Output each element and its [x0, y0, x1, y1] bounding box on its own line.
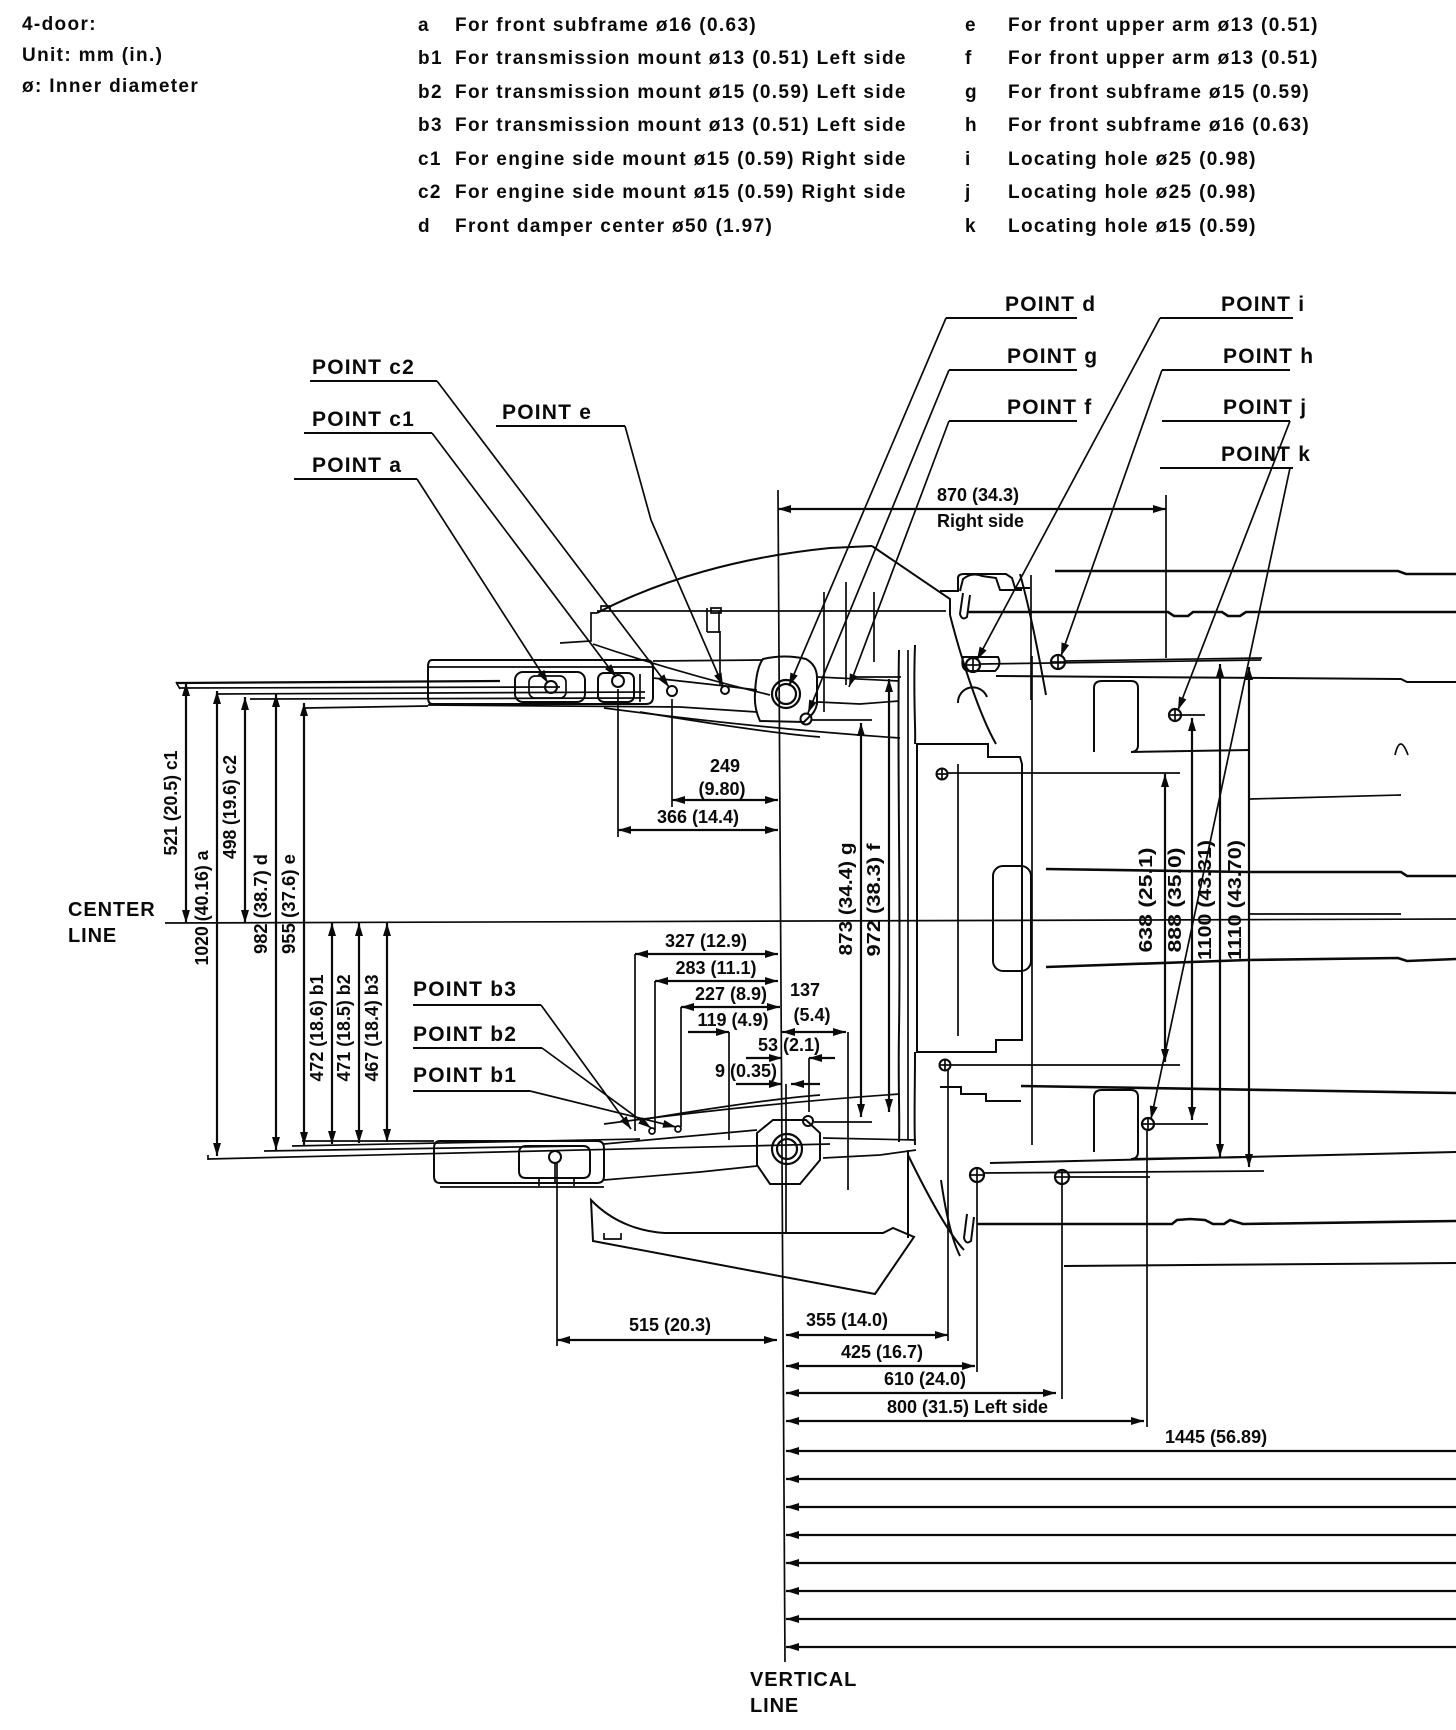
- svg-text:For engine side mount ø15 (0.5: For engine side mount ø15 (0.59) Right s…: [455, 182, 907, 203]
- svg-text:249: 249: [710, 756, 740, 776]
- label POINT d: [789, 293, 1096, 686]
- svg-text:227 (8.9): 227 (8.9): [695, 984, 767, 1004]
- label POINT h: [1061, 345, 1314, 656]
- floor tunnel outline: [917, 744, 1022, 1052]
- lower arm mount hole: [539, 1151, 574, 1186]
- svg-text:870 (34.3): 870 (34.3): [937, 485, 1019, 505]
- mid long line lower: [1046, 958, 1456, 967]
- svg-text:POINT f: POINT f: [1007, 396, 1092, 419]
- svg-text:POINT e: POINT e: [502, 401, 592, 424]
- svg-text:j: j: [964, 182, 972, 203]
- wheel arch arc upper: [958, 687, 987, 703]
- svg-text:327 (12.9): 327 (12.9): [665, 931, 747, 951]
- hole a: [545, 681, 557, 693]
- b-pillar curve: [1020, 574, 1046, 695]
- dimension 327: [635, 931, 778, 1131]
- label POINT c2: [310, 356, 669, 687]
- svg-text:i: i: [965, 149, 972, 170]
- hood curve: [597, 546, 872, 613]
- body line arrow 7: [786, 1618, 1456, 1620]
- lower arm bracket inner plate: [519, 1146, 590, 1178]
- svg-text:355 (14.0): 355 (14.0): [806, 1310, 888, 1330]
- svg-text:LINE: LINE: [750, 1695, 799, 1717]
- svg-text:CENTER: CENTER: [68, 899, 156, 921]
- lower body leader y1162: [990, 1152, 1456, 1163]
- svg-text:471 (18.5) b2: 471 (18.5) b2: [334, 975, 354, 1082]
- svg-text:Right side: Right side: [937, 511, 1024, 531]
- svg-text:137: 137: [790, 980, 820, 1000]
- svg-text:For engine side mount ø15 (0.5: For engine side mount ø15 (0.59) Right s…: [455, 149, 907, 170]
- subframe mid connection lower: [823, 1138, 916, 1158]
- locating hole k: [1142, 1118, 1208, 1130]
- svg-text:972 (38.3) f: 972 (38.3) f: [864, 842, 884, 956]
- svg-text:b1: b1: [418, 48, 443, 69]
- label POINT b1: [413, 1064, 676, 1127]
- label POINT b2: [413, 1023, 651, 1128]
- roof rail front: [960, 575, 1022, 591]
- floor tunnel inner square: [993, 866, 1031, 971]
- cowl vertical 846: [845, 582, 847, 685]
- dimension 638: [1136, 774, 1165, 1062]
- tunnel right vertical: [1031, 656, 1033, 1145]
- hole g upper left: [937, 769, 1181, 780]
- svg-text:POINT j: POINT j: [1223, 396, 1307, 419]
- dimension 888: [1165, 718, 1192, 1120]
- locating hole 610: [1055, 1170, 1150, 1184]
- dimension 1110: [1225, 667, 1249, 1167]
- body line arrow 4: [786, 1534, 1456, 1536]
- label POINT b3: [413, 978, 631, 1129]
- mid body line y914: [1250, 913, 1401, 915]
- label POINT f: [849, 396, 1092, 687]
- label POINT c1: [304, 408, 616, 677]
- damper center d circles: [772, 680, 800, 708]
- subframe upper sweep mirror 1: [604, 1094, 900, 1124]
- body line arrow 8: [786, 1646, 1456, 1648]
- cowl hanger struct: [707, 608, 721, 686]
- damper mount upper hexagon: [755, 657, 817, 723]
- svg-text:1110 (43.70): 1110 (43.70): [1225, 840, 1245, 960]
- svg-text:888 (35.0): 888 (35.0): [1165, 848, 1185, 953]
- dimension 249: [672, 699, 778, 807]
- svg-text:d: d: [418, 216, 431, 237]
- dimension 873 g: [836, 723, 861, 1117]
- dimension 870 right side: [778, 485, 1166, 658]
- dimension 1020 a: [192, 691, 217, 1156]
- svg-text:Front damper center ø50 (1.97): Front damper center ø50 (1.97): [455, 216, 773, 237]
- svg-text:1020 (40.16) a: 1020 (40.16) a: [192, 850, 212, 966]
- lower body line y1227: [977, 1219, 1456, 1224]
- label POINT i: [977, 293, 1305, 660]
- lower arm bracket: [434, 1141, 604, 1187]
- dimension 498 c2: [220, 697, 245, 923]
- svg-text:1445 (56.89): 1445 (56.89): [1165, 1427, 1267, 1447]
- svg-text:Locating hole ø25 (0.98): Locating hole ø25 (0.98): [1008, 149, 1257, 170]
- svg-text:b3: b3: [418, 115, 443, 136]
- svg-text:873 (34.4) g: 873 (34.4) g: [836, 843, 856, 956]
- label POINT a: [294, 454, 548, 683]
- door hinge bump upper: [962, 657, 999, 671]
- hole g left lower: [803, 1116, 872, 1126]
- svg-text:POINT c1: POINT c1: [312, 408, 415, 431]
- dimension 1100: [1195, 664, 1220, 1157]
- svg-text:800 (31.5) Left side: 800 (31.5) Left side: [887, 1397, 1048, 1417]
- svg-text:1100 (43.31): 1100 (43.31): [1195, 840, 1215, 960]
- hole g lower left: [940, 1060, 1181, 1071]
- lower arm blade lines: [208, 1139, 830, 1160]
- b-pillar line: [1030, 575, 1032, 700]
- label POINT j: [1162, 396, 1307, 710]
- dimension 471 b2: [334, 923, 359, 1143]
- upper body line y680: [996, 676, 1456, 682]
- svg-text:POINT b1: POINT b1: [413, 1064, 517, 1087]
- subframe lower sweep 1: [604, 708, 900, 738]
- svg-text:k: k: [965, 216, 977, 237]
- svg-text:53 (2.1): 53 (2.1): [758, 1035, 820, 1055]
- svg-text:955 (37.6) e: 955 (37.6) e: [279, 854, 299, 954]
- svg-text:POINT g: POINT g: [1007, 345, 1098, 368]
- belt line H2: [968, 612, 1456, 616]
- dimension 425: [786, 1182, 977, 1372]
- dimension 800 left side: [786, 1131, 1147, 1427]
- svg-text:For transmission mount ø15 (0.: For transmission mount ø15 (0.59) Left s…: [455, 82, 907, 103]
- sill inner vertical: [907, 650, 909, 1140]
- svg-text:e: e: [965, 15, 977, 36]
- svg-text:For front subframe ø16 (0.63): For front subframe ø16 (0.63): [455, 15, 757, 36]
- lower arm beak: [604, 1130, 757, 1180]
- dimension 119: [688, 1010, 769, 1140]
- svg-text:b2: b2: [418, 82, 443, 103]
- svg-text:c1: c1: [418, 149, 442, 170]
- svg-text:VERTICAL: VERTICAL: [750, 1669, 857, 1691]
- damper mount lower pentagon: [757, 1120, 820, 1184]
- dimension 972 f: [864, 679, 889, 1112]
- body line arrow 2: [786, 1478, 1456, 1480]
- svg-text:(5.4): (5.4): [793, 1005, 830, 1025]
- body line arrow 5: [786, 1562, 1456, 1564]
- svg-text:Unit: mm (in.): Unit: mm (in.): [22, 45, 163, 66]
- hole e: [721, 686, 729, 694]
- label POINT e: [496, 401, 723, 686]
- dimension 610: [786, 1184, 1062, 1399]
- lower sill line y1088: [1021, 1086, 1456, 1093]
- svg-text:For transmission mount ø13 (0.: For transmission mount ø13 (0.51) Left s…: [455, 48, 907, 69]
- dimension 955 e: [279, 703, 304, 1145]
- svg-text:POINT b2: POINT b2: [413, 1023, 517, 1046]
- upper arm bracket second plate: [598, 673, 640, 702]
- dimension 53: [746, 1035, 835, 1112]
- locating hole 425: [970, 1168, 1264, 1182]
- locating hole j: [1169, 709, 1205, 721]
- subframe upper sweep mirror 2: [640, 1095, 820, 1120]
- dimension 366: [618, 689, 778, 837]
- svg-text:POINT k: POINT k: [1221, 443, 1311, 466]
- svg-text:425 (16.7): 425 (16.7): [841, 1342, 923, 1362]
- lower cowl side curve: [908, 1150, 964, 1250]
- damper center circles lower: [772, 1134, 802, 1164]
- cowl vertical 874: [873, 592, 875, 662]
- dimension 467 b3: [362, 923, 387, 1142]
- svg-text:119 (4.9): 119 (4.9): [697, 1010, 768, 1030]
- subframe lower sweep 2: [640, 712, 820, 737]
- door sill bracket k: [1094, 1090, 1250, 1159]
- svg-text:(9.80): (9.80): [698, 779, 745, 799]
- vertical datum line: [778, 490, 785, 1662]
- hole c1: [612, 675, 624, 687]
- svg-text:g: g: [965, 82, 978, 103]
- dimension 283: [655, 958, 778, 1130]
- front bumper wing: [591, 1200, 914, 1294]
- svg-text:Locating hole ø15 (0.59): Locating hole ø15 (0.59): [1008, 216, 1257, 237]
- door sill bracket j: [1094, 681, 1250, 752]
- dimension 982 d: [251, 694, 276, 1150]
- svg-text:366 (14.4): 366 (14.4): [657, 807, 739, 827]
- pillar flag upper: [960, 593, 970, 618]
- svg-text:POINT a: POINT a: [312, 454, 402, 477]
- hole g right: [801, 714, 873, 725]
- center line: [165, 919, 1456, 923]
- label POINT k: [1151, 443, 1311, 1119]
- svg-text:9 (0.35): 9 (0.35): [715, 1061, 777, 1081]
- dimension 472 b1: [307, 923, 332, 1144]
- upper arm bracket inner plate: [515, 672, 585, 702]
- hole b1: [649, 1128, 655, 1134]
- center line label: [68, 899, 156, 947]
- sill front verticals: [898, 645, 915, 1145]
- svg-text:283 (11.1): 283 (11.1): [675, 958, 756, 978]
- svg-text:521 (20.5) c1: 521 (20.5) c1: [161, 751, 181, 856]
- subframe mid connection upper: [818, 677, 901, 704]
- svg-text:POINT i: POINT i: [1221, 293, 1305, 316]
- svg-text:POINT b3: POINT b3: [413, 978, 517, 1001]
- svg-text:472 (18.6) b1: 472 (18.6) b1: [307, 975, 327, 1082]
- locating hole h: [1051, 655, 1262, 669]
- svg-text:For front upper arm ø13 (0.51): For front upper arm ø13 (0.51): [1008, 48, 1319, 69]
- body line arrow 3: [786, 1506, 1456, 1508]
- windshield diagonal: [872, 546, 950, 615]
- svg-text:982 (38.7) d: 982 (38.7) d: [251, 854, 271, 954]
- inner fender curve: [593, 644, 770, 695]
- svg-text:Locating hole ø25 (0.98): Locating hole ø25 (0.98): [1008, 182, 1257, 203]
- dimension 515: [557, 1163, 777, 1346]
- hole c2: [667, 686, 677, 696]
- mid body line y797: [1250, 795, 1401, 799]
- svg-text:For front upper arm ø13 (0.51): For front upper arm ø13 (0.51): [1008, 15, 1319, 36]
- svg-text:515 (20.3): 515 (20.3): [629, 1315, 711, 1335]
- svg-text:h: h: [965, 115, 978, 136]
- upper arm blade lines: [176, 681, 645, 708]
- dimension 9: [715, 1061, 820, 1232]
- locating hole i: [966, 658, 1261, 672]
- pillar flag lower: [964, 1214, 974, 1242]
- dimension 227: [681, 984, 780, 1127]
- dimension 137: [782, 980, 848, 1190]
- body line arrow 6: [786, 1590, 1456, 1592]
- svg-text:467 (18.4) b3: 467 (18.4) b3: [362, 975, 382, 1082]
- label POINT g: [808, 345, 1098, 713]
- svg-text:a: a: [418, 15, 430, 36]
- svg-text:For front subframe ø16 (0.63): For front subframe ø16 (0.63): [1008, 115, 1310, 136]
- svg-text:For transmission mount ø13 (0.: For transmission mount ø13 (0.51) Left s…: [455, 115, 907, 136]
- sill step block upper: [940, 574, 1030, 591]
- mid long line upper: [1046, 869, 1456, 876]
- svg-text:POINT d: POINT d: [1005, 293, 1096, 316]
- svg-text:POINT h: POINT h: [1223, 345, 1314, 368]
- vertical line label: [750, 1669, 857, 1717]
- svg-text:c2: c2: [418, 182, 442, 203]
- upper arm beak: [653, 678, 757, 690]
- svg-text:498 (19.6) c2: 498 (19.6) c2: [220, 755, 240, 859]
- door handle curve: [1395, 744, 1408, 755]
- cowl side curve: [950, 615, 996, 744]
- wheel arch curve lower: [941, 1180, 960, 1256]
- hole b2: [675, 1126, 681, 1132]
- cowl vertical 824: [823, 592, 825, 712]
- dimension 355: [786, 1070, 948, 1341]
- svg-text:610 (24.0): 610 (24.0): [884, 1369, 966, 1389]
- lower body line y1262: [1064, 1263, 1456, 1266]
- svg-text:ø: Inner diameter: ø: Inner diameter: [22, 76, 199, 97]
- upper arm bracket: [428, 660, 763, 712]
- svg-text:4-door:: 4-door:: [22, 14, 97, 35]
- svg-text:f: f: [965, 48, 973, 69]
- tunnel inner vertical: [957, 764, 959, 1036]
- dimension 1445: [786, 1427, 1456, 1451]
- svg-text:POINT c2: POINT c2: [312, 356, 415, 379]
- sill step block lower: [940, 1087, 1021, 1101]
- svg-text:638 (25.1): 638 (25.1): [1136, 848, 1156, 953]
- hood rear edge: [560, 606, 946, 643]
- svg-text:LINE: LINE: [68, 925, 117, 947]
- dimension 521 c1: [161, 683, 186, 923]
- roof line H1: [1055, 571, 1456, 574]
- svg-text:For front subframe ø15 (0.59): For front subframe ø15 (0.59): [1008, 82, 1310, 103]
